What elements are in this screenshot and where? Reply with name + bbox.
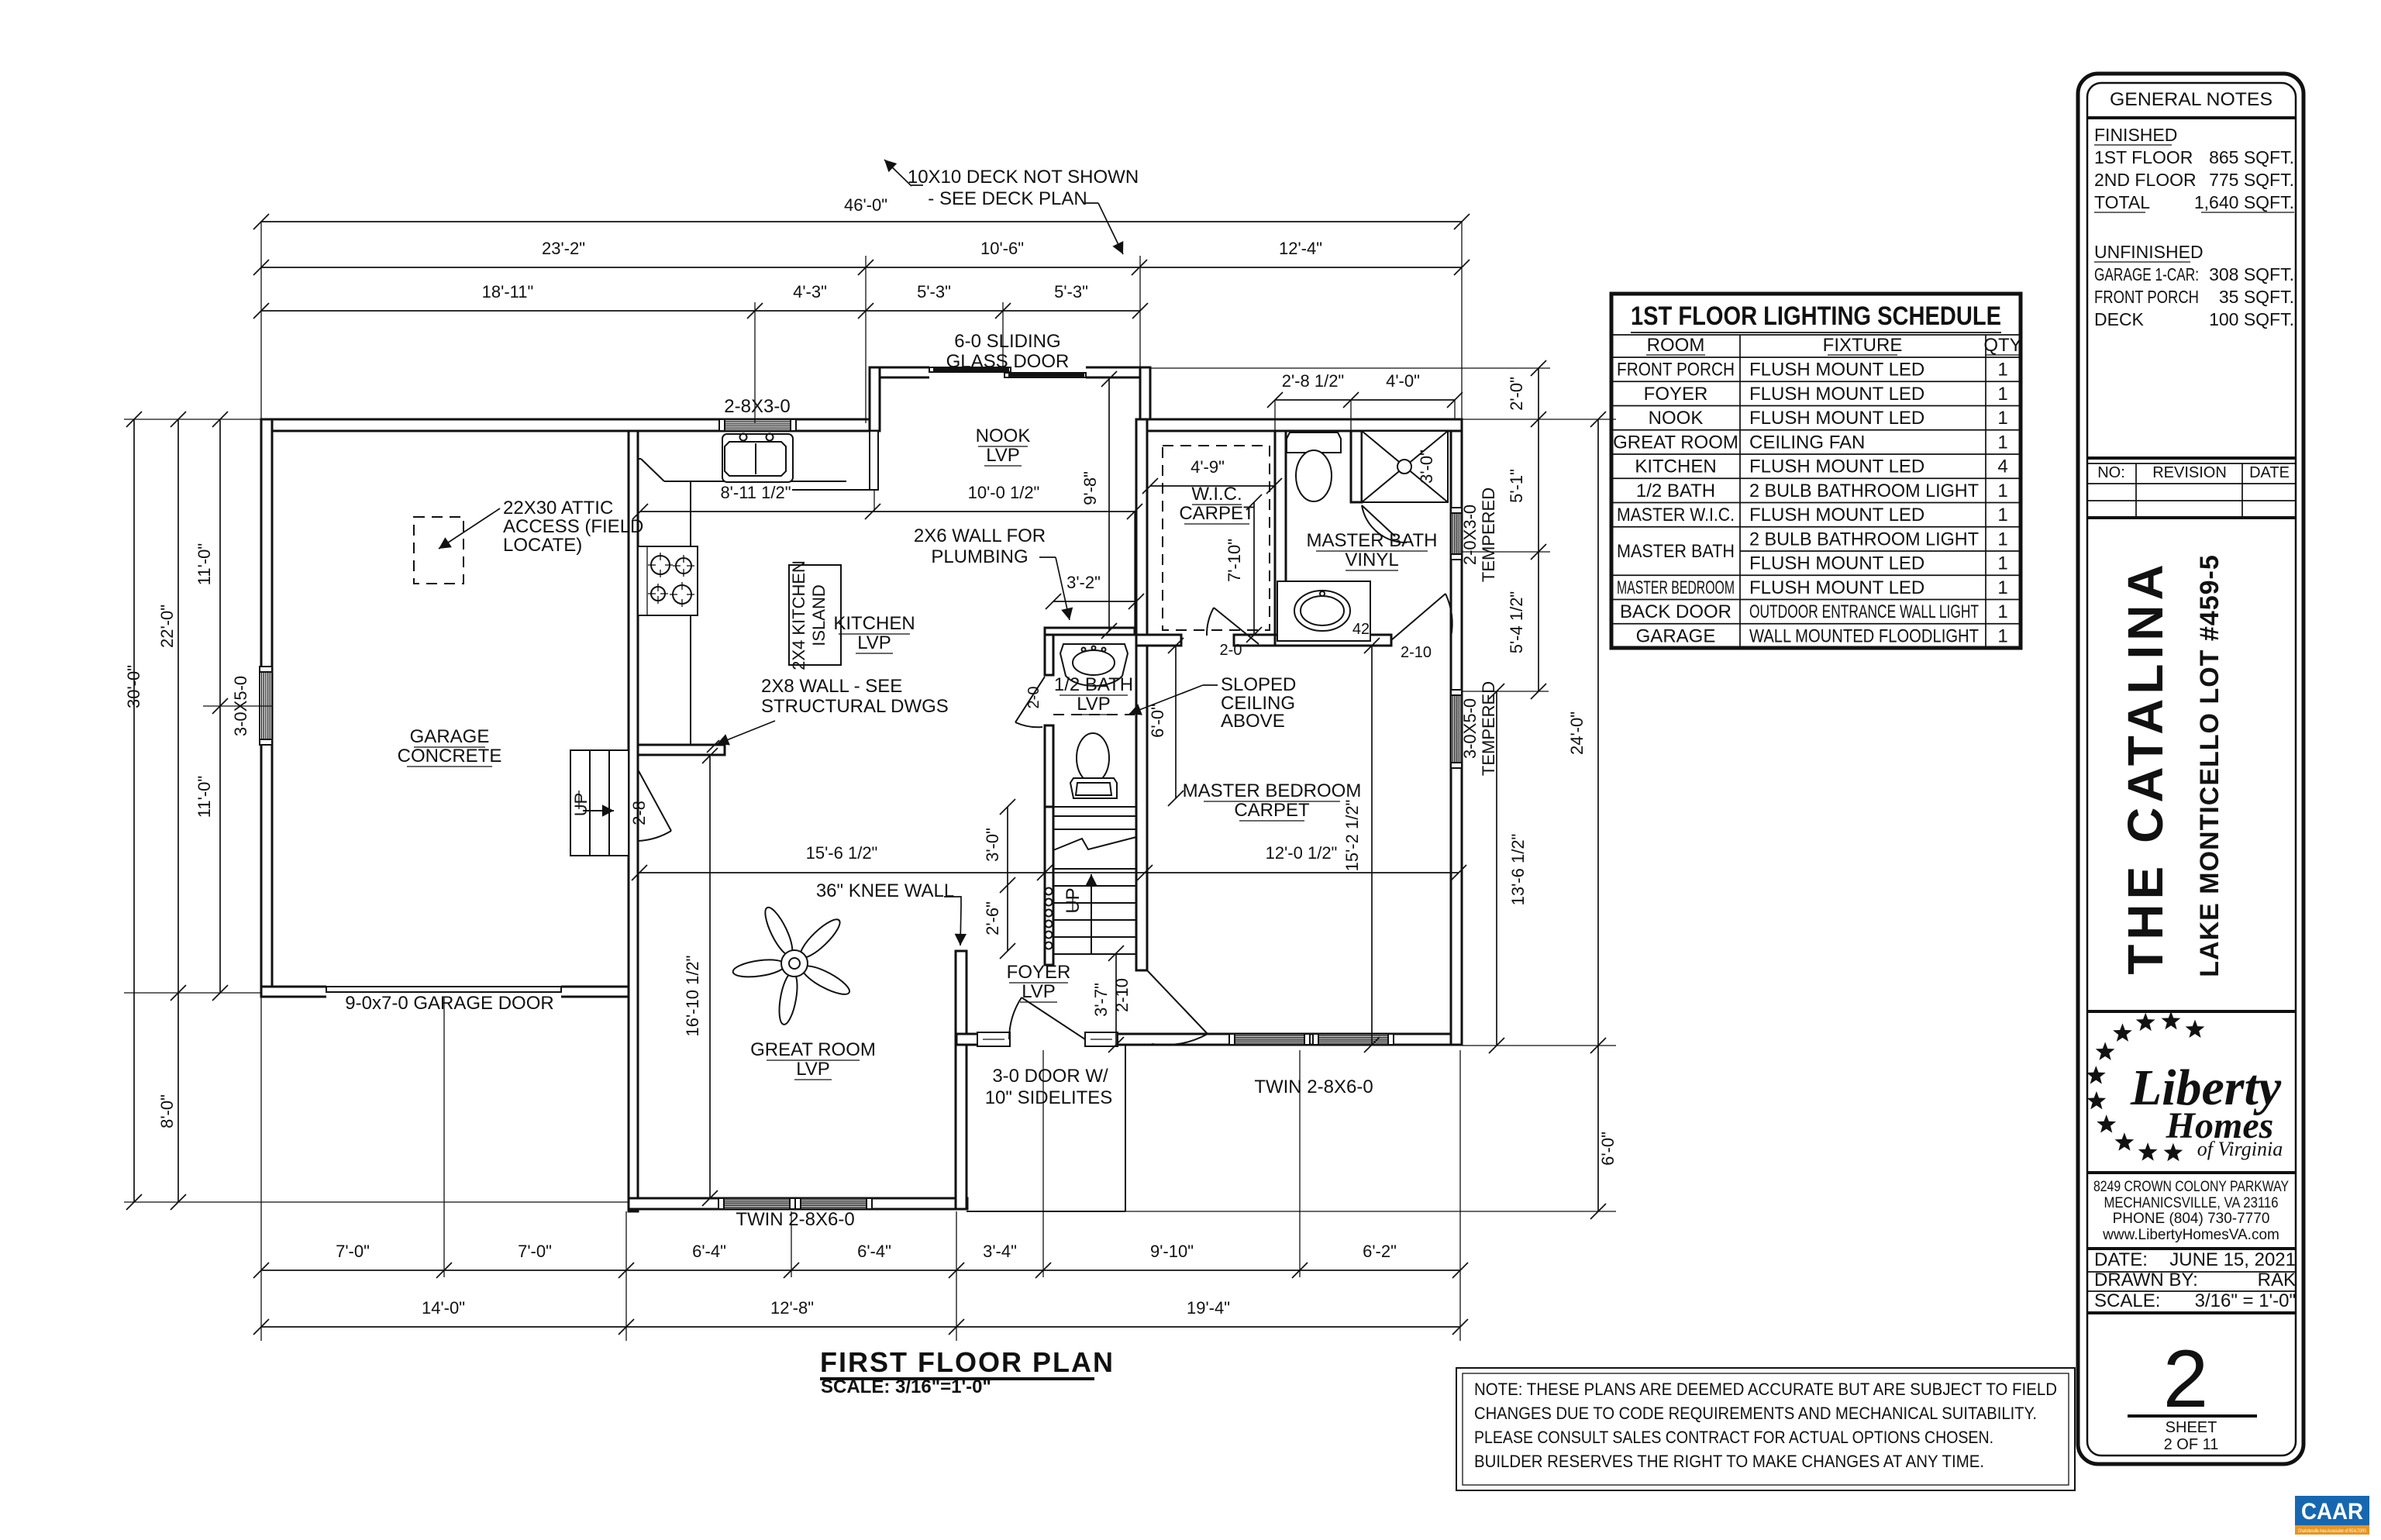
svg-text:GREAT ROOM: GREAT ROOM — [750, 1039, 876, 1060]
svg-text:CONCRETE: CONCRETE — [398, 746, 502, 767]
svg-text:Charlottesville Area Associati: Charlottesville Area Association of REAL… — [2298, 1529, 2366, 1534]
svg-text:1/2 BATH: 1/2 BATH — [1054, 674, 1133, 695]
svg-text:TEMPERED: TEMPERED — [1479, 681, 1498, 776]
svg-text:TWIN 2-8X6-0: TWIN 2-8X6-0 — [1254, 1077, 1373, 1097]
svg-text:308 SQFT.: 308 SQFT. — [2209, 264, 2294, 284]
svg-text:SCALE:: SCALE: — [2094, 1290, 2160, 1311]
svg-text:VINYL: VINYL — [1345, 550, 1398, 570]
svg-text:6'-4": 6'-4" — [692, 1242, 726, 1261]
svg-text:ISLAND: ISLAND — [809, 584, 829, 646]
svg-text:FOYER: FOYER — [1644, 384, 1708, 405]
svg-text:ACCESS (FIELD: ACCESS (FIELD — [503, 516, 643, 537]
svg-text:5'-4 1/2": 5'-4 1/2" — [1507, 591, 1526, 654]
svg-text:3'-0": 3'-0" — [1417, 450, 1436, 484]
svg-text:9-0x7-0 GARAGE DOOR: 9-0x7-0 GARAGE DOOR — [345, 993, 553, 1014]
svg-text:UNFINISHED: UNFINISHED — [2094, 242, 2204, 262]
svg-text:8'-0": 8'-0" — [157, 1094, 177, 1128]
svg-text:of Virginia: of Virginia — [2197, 1138, 2283, 1160]
svg-text:CHANGES DUE TO CODE REQUIREMEN: CHANGES DUE TO CODE REQUIREMENTS AND MEC… — [1474, 1404, 2037, 1423]
svg-text:22X30 ATTIC: 22X30 ATTIC — [503, 498, 613, 519]
svg-text:FINISHED: FINISHED — [2094, 125, 2177, 145]
svg-text:2-10: 2-10 — [1112, 978, 1132, 1012]
svg-text:8'-11 1/2": 8'-11 1/2" — [720, 483, 791, 502]
svg-text:2'-0": 2'-0" — [1507, 377, 1526, 411]
svg-text:1: 1 — [1997, 529, 2007, 550]
svg-text:LVP: LVP — [986, 445, 1020, 466]
svg-text:2X8 WALL - SEE: 2X8 WALL - SEE — [761, 676, 902, 697]
svg-text:16'-10 1/2": 16'-10 1/2" — [683, 956, 702, 1037]
svg-text:GENERAL NOTES: GENERAL NOTES — [2110, 89, 2272, 110]
svg-text:22'-0": 22'-0" — [157, 605, 177, 648]
svg-text:3'-2": 3'-2" — [1066, 573, 1101, 592]
svg-text:3/16" = 1'-0": 3/16" = 1'-0" — [2195, 1290, 2296, 1311]
svg-text:1: 1 — [1997, 408, 2007, 429]
svg-text:7'-10": 7'-10" — [1225, 539, 1244, 582]
svg-text:15'-6 1/2": 15'-6 1/2" — [806, 843, 878, 863]
svg-text:www.LibertyHomesVA.com: www.LibertyHomesVA.com — [2102, 1227, 2279, 1243]
svg-text:FLUSH MOUNT LED: FLUSH MOUNT LED — [1749, 384, 1924, 405]
svg-text:36" KNEE WALL: 36" KNEE WALL — [816, 880, 954, 901]
svg-text:GARAGE: GARAGE — [1636, 625, 1716, 646]
svg-text:10'-6": 10'-6" — [980, 239, 1024, 258]
svg-text:GLASS DOOR: GLASS DOOR — [946, 351, 1070, 372]
svg-text:9'-8": 9'-8" — [1080, 471, 1100, 505]
svg-text:DATE:: DATE: — [2094, 1249, 2148, 1270]
svg-text:46'-0": 46'-0" — [844, 195, 887, 215]
svg-text:865 SQFT.: 865 SQFT. — [2209, 147, 2294, 167]
svg-text:TEMPERED: TEMPERED — [1479, 487, 1498, 582]
svg-text:2'-6": 2'-6" — [983, 901, 1002, 935]
svg-text:10'-0 1/2": 10'-0 1/2" — [968, 483, 1040, 502]
svg-text:1: 1 — [1997, 360, 2007, 381]
svg-text:6'-0": 6'-0" — [1148, 704, 1167, 738]
svg-text:11'-0": 11'-0" — [195, 776, 214, 818]
svg-text:5'-3": 5'-3" — [917, 282, 951, 301]
svg-text:6'-0": 6'-0" — [1598, 1132, 1618, 1166]
svg-text:PLUMBING: PLUMBING — [931, 546, 1028, 567]
svg-text:THE CATALINA: THE CATALINA — [2117, 560, 2173, 974]
svg-text:6'-4": 6'-4" — [857, 1242, 891, 1261]
svg-text:LVP: LVP — [796, 1059, 830, 1080]
svg-text:9'-10": 9'-10" — [1150, 1242, 1194, 1261]
svg-text:PLEASE CONSULT SALES CONTRACT: PLEASE CONSULT SALES CONTRACT FOR ACTUAL… — [1474, 1428, 1993, 1447]
svg-text:1: 1 — [1997, 601, 2007, 622]
svg-text:35 SQFT.: 35 SQFT. — [2219, 287, 2294, 307]
svg-text:LVP: LVP — [1077, 694, 1111, 715]
svg-text:FIXTURE: FIXTURE — [1823, 335, 1903, 356]
svg-text:LOCATE): LOCATE) — [503, 535, 582, 556]
svg-text:NOOK: NOOK — [1649, 408, 1704, 429]
svg-text:ABOVE: ABOVE — [1221, 711, 1285, 732]
svg-text:2-0: 2-0 — [1025, 687, 1042, 709]
svg-text:1: 1 — [1997, 577, 2007, 598]
svg-text:SHEET: SHEET — [2166, 1419, 2217, 1436]
svg-text:12'-8": 12'-8" — [770, 1298, 814, 1318]
svg-text:1: 1 — [1997, 553, 2007, 574]
svg-text:2-8: 2-8 — [629, 801, 649, 825]
svg-text:SCALE: 3/16"=1'-0": SCALE: 3/16"=1'-0" — [821, 1376, 991, 1397]
svg-text:CARPET: CARPET — [1179, 503, 1255, 524]
svg-text:18'-11": 18'-11" — [482, 282, 534, 301]
svg-text:19'-4": 19'-4" — [1187, 1298, 1230, 1318]
svg-text:3-0X5-0: 3-0X5-0 — [1460, 698, 1480, 759]
svg-text:8249 CROWN COLONY PARKWAY: 8249 CROWN COLONY PARKWAY — [2093, 1179, 2289, 1195]
svg-text:DECK: DECK — [2094, 309, 2145, 329]
svg-text:NOOK: NOOK — [976, 425, 1031, 446]
svg-text:3'-0": 3'-0" — [983, 828, 1002, 862]
svg-text:GREAT ROOM: GREAT ROOM — [1613, 432, 1738, 453]
svg-text:TOTAL: TOTAL — [2094, 192, 2150, 212]
svg-text:JUNE 15, 2021: JUNE 15, 2021 — [2169, 1249, 2296, 1270]
svg-text:PHONE (804) 730-7770: PHONE (804) 730-7770 — [2113, 1211, 2270, 1227]
svg-text:GARAGE 1-CAR:: GARAGE 1-CAR: — [2094, 264, 2199, 284]
svg-text:12'-4": 12'-4" — [1279, 239, 1322, 258]
svg-text:3'-4": 3'-4" — [983, 1242, 1017, 1261]
svg-text:1ST FLOOR LIGHTING SCHEDULE: 1ST FLOOR LIGHTING SCHEDULE — [1631, 301, 2001, 331]
svg-text:1ST FLOOR: 1ST FLOOR — [2094, 147, 2193, 167]
svg-text:MASTER BATH: MASTER BATH — [1617, 541, 1735, 562]
svg-text:3'-7": 3'-7" — [1091, 983, 1111, 1017]
svg-text:2'-8 1/2": 2'-8 1/2" — [1282, 371, 1345, 391]
svg-text:LVP: LVP — [857, 632, 891, 653]
svg-text:100 SQFT.: 100 SQFT. — [2209, 309, 2294, 329]
svg-text:BUILDER RESERVES THE RIGHT TO: BUILDER RESERVES THE RIGHT TO MAKE CHANG… — [1474, 1452, 1984, 1471]
svg-text:5'-1": 5'-1" — [1507, 469, 1526, 503]
svg-text:MASTER BEDROOM: MASTER BEDROOM — [1183, 780, 1362, 801]
svg-text:24'-0": 24'-0" — [1567, 711, 1587, 755]
svg-text:14'-0": 14'-0" — [422, 1298, 465, 1318]
svg-text:4'-0": 4'-0" — [1386, 371, 1420, 391]
svg-text:QTY: QTY — [1983, 335, 2021, 356]
svg-text:6'-2": 6'-2" — [1363, 1242, 1397, 1261]
svg-text:CAAR: CAAR — [2301, 1499, 2363, 1524]
svg-text:FIRST FLOOR PLAN: FIRST FLOOR PLAN — [820, 1346, 1115, 1378]
svg-text:2X6 WALL FOR: 2X6 WALL FOR — [914, 525, 1046, 546]
svg-text:W.I.C.: W.I.C. — [1191, 484, 1242, 505]
svg-text:10X10 DECK NOT SHOWN: 10X10 DECK NOT SHOWN — [908, 167, 1139, 188]
svg-text:CEILING FAN: CEILING FAN — [1749, 432, 1865, 453]
svg-text:2 BULB BATHROOM LIGHT: 2 BULB BATHROOM LIGHT — [1749, 529, 1979, 550]
svg-text:KITCHEN: KITCHEN — [1635, 456, 1716, 477]
svg-text:LVP: LVP — [1022, 981, 1056, 1002]
svg-text:REVISION: REVISION — [2152, 464, 2227, 481]
svg-text:FLUSH MOUNT LED: FLUSH MOUNT LED — [1749, 577, 1924, 598]
svg-text:1: 1 — [1997, 625, 2007, 646]
svg-text:NOTE: THESE PLANS ARE DEEMED A: NOTE: THESE PLANS ARE DEEMED ACCURATE BU… — [1474, 1380, 2057, 1399]
svg-text:2-0: 2-0 — [1220, 642, 1242, 659]
svg-text:BACK DOOR: BACK DOOR — [1620, 601, 1731, 622]
svg-text:FLUSH MOUNT LED: FLUSH MOUNT LED — [1749, 408, 1924, 429]
svg-text:OUTDOOR ENTRANCE WALL LIGHT: OUTDOOR ENTRANCE WALL LIGHT — [1749, 601, 1979, 622]
svg-text:5'-3": 5'-3" — [1054, 282, 1088, 301]
svg-text:7'-0": 7'-0" — [518, 1242, 552, 1261]
svg-text:2: 2 — [2163, 1334, 2208, 1425]
svg-text:WALL MOUNTED FLOODLIGHT: WALL MOUNTED FLOODLIGHT — [1749, 625, 1979, 646]
svg-text:FLUSH MOUNT LED: FLUSH MOUNT LED — [1749, 505, 1924, 525]
svg-text:GARAGE: GARAGE — [410, 726, 490, 747]
svg-text:1: 1 — [1997, 432, 2007, 453]
svg-text:FRONT PORCH: FRONT PORCH — [1617, 360, 1735, 381]
svg-text:FOYER: FOYER — [1007, 962, 1071, 983]
svg-text:6-0 SLIDING: 6-0 SLIDING — [954, 331, 1060, 352]
svg-text:FLUSH MOUNT LED: FLUSH MOUNT LED — [1749, 553, 1924, 574]
svg-text:775 SQFT.: 775 SQFT. — [2209, 170, 2294, 190]
svg-text:2ND FLOOR: 2ND FLOOR — [2094, 170, 2197, 190]
svg-text:2-10: 2-10 — [1401, 644, 1432, 661]
svg-text:1,640 SQFT.: 1,640 SQFT. — [2194, 192, 2294, 212]
svg-text:4: 4 — [1997, 456, 2007, 477]
svg-text:FLUSH MOUNT LED: FLUSH MOUNT LED — [1749, 456, 1924, 477]
svg-text:3-0 DOOR W/: 3-0 DOOR W/ — [992, 1066, 1108, 1087]
svg-text:LAKE MONTICELLO LOT #459-5: LAKE MONTICELLO LOT #459-5 — [2195, 554, 2224, 977]
svg-text:KITCHEN: KITCHEN — [833, 613, 915, 634]
svg-text:4'-3": 4'-3" — [793, 282, 827, 301]
svg-text:2-8X3-0: 2-8X3-0 — [724, 396, 790, 417]
svg-text:MASTER W.I.C.: MASTER W.I.C. — [1617, 505, 1735, 525]
svg-text:4'-9": 4'-9" — [1190, 457, 1225, 477]
svg-text:12'-0 1/2": 12'-0 1/2" — [1266, 843, 1338, 863]
svg-text:STRUCTURAL DWGS: STRUCTURAL DWGS — [761, 696, 949, 717]
svg-text:MECHANICSVILLE, VA 23116: MECHANICSVILLE, VA 23116 — [2104, 1195, 2279, 1211]
svg-text:RAK: RAK — [2258, 1270, 2296, 1290]
svg-text:1/2 BATH: 1/2 BATH — [1636, 481, 1715, 501]
svg-text:2 BULB BATHROOM LIGHT: 2 BULB BATHROOM LIGHT — [1749, 481, 1979, 501]
svg-text:TWIN 2-8X6-0: TWIN 2-8X6-0 — [736, 1209, 854, 1230]
svg-text:ROOM: ROOM — [1647, 335, 1705, 356]
svg-text:30'-0": 30'-0" — [124, 665, 143, 708]
svg-text:FRONT PORCH: FRONT PORCH — [2094, 287, 2199, 307]
svg-text:2-0X3-0: 2-0X3-0 — [1460, 505, 1480, 565]
svg-text:UP: UP — [571, 793, 591, 817]
svg-text:- SEE DECK PLAN: - SEE DECK PLAN — [928, 188, 1087, 209]
svg-text:NO:: NO: — [2097, 464, 2125, 481]
svg-text:SLOPED: SLOPED — [1221, 674, 1296, 695]
svg-text:42: 42 — [1352, 621, 1370, 638]
svg-text:2 OF 11: 2 OF 11 — [2164, 1436, 2219, 1453]
svg-text:DRAWN BY:: DRAWN BY: — [2094, 1270, 2198, 1290]
svg-text:10" SIDELITES: 10" SIDELITES — [985, 1087, 1113, 1108]
svg-text:7'-0": 7'-0" — [336, 1242, 370, 1261]
svg-text:1: 1 — [1997, 384, 2007, 405]
svg-text:DATE: DATE — [2249, 464, 2290, 481]
svg-text:MASTER BEDROOM: MASTER BEDROOM — [1617, 577, 1735, 598]
svg-text:1: 1 — [1997, 481, 2007, 501]
svg-text:15'-2 1/2": 15'-2 1/2" — [1342, 800, 1362, 872]
svg-text:11'-0": 11'-0" — [195, 543, 214, 585]
svg-text:1: 1 — [1997, 505, 2007, 525]
svg-text:FLUSH MOUNT LED: FLUSH MOUNT LED — [1749, 360, 1924, 381]
svg-text:23'-2": 23'-2" — [542, 239, 585, 258]
svg-text:2X4 KITCHEN: 2X4 KITCHEN — [789, 560, 808, 670]
svg-text:MASTER BATH: MASTER BATH — [1307, 530, 1438, 551]
svg-text:CARPET: CARPET — [1234, 800, 1310, 821]
svg-text:13'-6 1/2": 13'-6 1/2" — [1508, 834, 1528, 906]
